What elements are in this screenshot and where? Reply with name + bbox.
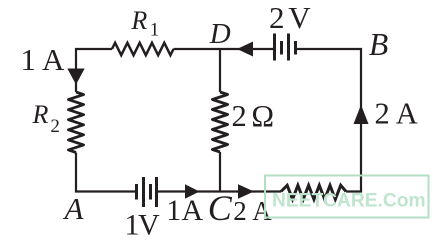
current arrow into node D (leftward on top wire) — [237, 42, 253, 57]
wire middle branch lower (2-ohm resistor down to node C) — [219, 152, 221, 192]
battery 1V plate long — [142, 177, 145, 207]
svg-text:2 A: 2 A — [233, 196, 272, 226]
battery 2V plate long right — [287, 34, 290, 61]
wire bottom-right segment (R3 to bottom-right corner) — [346, 190, 362, 192]
battery 1V plate long right — [155, 177, 158, 207]
current arrow 2 A upward on right wire — [354, 105, 369, 124]
resistor R1 — [112, 43, 174, 55]
svg-text:R2: R2 — [32, 100, 60, 137]
wire: R2 down to corner A, right to battery 1V — [76, 153, 137, 192]
battery 1V plate short left — [135, 184, 138, 200]
wire: battery 2V to corner B, down right side to bottom-right corner — [296, 49, 362, 192]
svg-text:1 V: 1 V — [125, 209, 161, 241]
wire bottom-middle segment (battery 1V through node C to R3) — [157, 190, 282, 192]
svg-text:C: C — [208, 188, 233, 228]
watermark NEETCARE.Com — [265, 176, 429, 218]
svg-text:2 V: 2 V — [269, 0, 311, 35]
wire top-middle segment (R1 through node D to battery 2V) — [174, 48, 275, 50]
svg-text:B: B — [369, 27, 388, 62]
current arrow 2 A rightward on bottom wire — [238, 184, 254, 198]
svg-text:D: D — [209, 18, 231, 50]
svg-text:A: A — [63, 191, 85, 226]
svg-text:1 A: 1 A — [21, 42, 66, 77]
svg-text:R1: R1 — [130, 6, 159, 41]
battery 2V plate short — [280, 41, 283, 55]
wire middle branch upper (node D down to 2-ohm resistor) — [219, 49, 221, 92]
current arrow 1 A rightward on bottom wire — [185, 184, 200, 198]
svg-text:2 A: 2 A — [375, 97, 418, 131]
resistor 2 ohm (middle) — [212, 92, 227, 152]
resistor R3 (bottom right, unlabeled) — [281, 185, 346, 199]
battery 2V plate short right — [294, 41, 297, 55]
svg-text:1 A: 1 A — [166, 194, 203, 227]
svg-text:2 Ω: 2 Ω — [232, 99, 275, 133]
current arrow 1 A downward on left wire — [67, 69, 84, 85]
battery 2V plate long left — [273, 34, 276, 61]
battery 1V plate short right — [149, 184, 152, 200]
wire: R1 lead to top-left corner, down to R2 — [76, 49, 112, 92]
svg-text:NEETCARE.Com: NEETCARE.Com — [272, 191, 426, 212]
resistor R2 — [68, 92, 83, 153]
